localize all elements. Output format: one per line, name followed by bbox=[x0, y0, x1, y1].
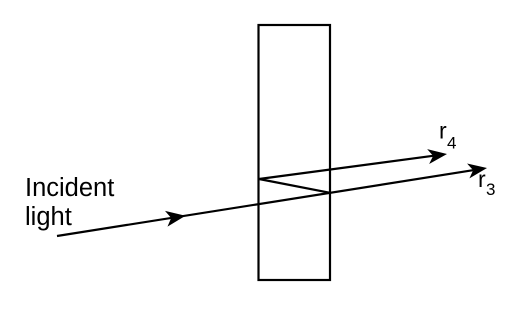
glass slab rectangle bbox=[259, 25, 331, 280]
svg-text:Incident: Incident bbox=[25, 174, 114, 202]
svg-text:3: 3 bbox=[486, 180, 495, 199]
internal reflection ray B to C bbox=[259, 179, 330, 193]
svg-text:light: light bbox=[25, 203, 72, 231]
incident ray / transmitted ray r3 (single straight line) bbox=[57, 170, 473, 236]
svg-text:r: r bbox=[478, 166, 486, 192]
arrowhead r3 tip bbox=[467, 161, 488, 179]
reflected-transmitted ray r4 from C bbox=[259, 156, 434, 179]
svg-text:4: 4 bbox=[447, 134, 456, 153]
svg-text:r: r bbox=[439, 118, 447, 144]
arrowhead r4 tip bbox=[427, 147, 448, 164]
arrowhead mid incident ray bbox=[165, 208, 187, 227]
